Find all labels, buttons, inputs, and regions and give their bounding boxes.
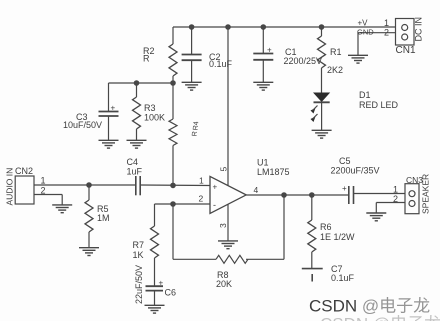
wire +V top rail: [173, 26, 396, 28]
junction C2 rail: [189, 25, 193, 29]
svg-text:C6: C6: [165, 288, 177, 298]
connector CN3: [405, 184, 419, 214]
svg-text:1M: 1M: [97, 213, 110, 223]
labels R8: [216, 270, 232, 289]
connector CN1: [396, 19, 415, 46]
labels R2: [143, 46, 155, 64]
svg-text:C4: C4: [127, 157, 139, 167]
svg-text:+V: +V: [358, 19, 369, 28]
svg-text:R6: R6: [320, 222, 332, 232]
svg-text:1: 1: [199, 176, 204, 186]
svg-text:RED LED: RED LED: [359, 100, 399, 110]
capacitor C5: [349, 186, 405, 204]
svg-text:R: R: [143, 54, 150, 64]
capacitor C6: [146, 286, 164, 305]
svg-text:1: 1: [393, 185, 398, 195]
op-amp U1: [210, 176, 246, 213]
capacitor C2: [182, 27, 202, 82]
ground D1: [312, 130, 332, 138]
svg-text:2200/25V: 2200/25V: [284, 56, 323, 66]
labels R6: [320, 222, 355, 242]
svg-text:C5: C5: [339, 156, 351, 166]
labels C5: [331, 156, 380, 193]
connector CN2: [15, 176, 34, 204]
wire feedback loop: [173, 204, 216, 259]
ground CN1: [348, 55, 368, 63]
svg-text:DC IN: DC IN: [414, 17, 424, 42]
capacitor C4: [136, 176, 210, 195]
svg-text:+: +: [267, 46, 272, 55]
wire pin3: [227, 204, 229, 241]
svg-text:CN1: CN1: [396, 45, 416, 56]
svg-text:+: +: [342, 184, 347, 193]
ground U1 pin3: [218, 241, 238, 249]
ground R3: [127, 140, 147, 148]
resistor R4: [169, 83, 177, 185]
svg-text:-: -: [213, 200, 216, 210]
labels CN1: [357, 17, 424, 56]
junction R1 rail: [319, 25, 323, 29]
junction feedback pin2: [171, 202, 175, 206]
labels CN3: [393, 174, 431, 214]
labels C3: [63, 112, 102, 130]
ground C1: [253, 82, 273, 90]
svg-text:2200uF/35V: 2200uF/35V: [331, 166, 380, 176]
labels C2: [209, 52, 233, 69]
svg-text:2: 2: [393, 194, 398, 204]
junction bias R4: [171, 81, 175, 85]
svg-text:R: R: [192, 131, 199, 137]
svg-text:3: 3: [218, 223, 228, 228]
ground CN3: [366, 213, 386, 221]
ground C3: [99, 140, 119, 148]
svg-text:CN2: CN2: [15, 166, 33, 176]
svg-text:2K2: 2K2: [327, 65, 343, 75]
labels C7: [331, 264, 355, 283]
svg-text:GND: GND: [357, 28, 374, 37]
labels C1: [284, 47, 323, 66]
svg-text:20K: 20K: [216, 279, 232, 289]
wire R8 to output: [246, 195, 284, 259]
capacitor polarity marks: [111, 46, 273, 113]
labels R1: [327, 47, 343, 75]
labels U1: [257, 158, 290, 178]
svg-text:0.1uF: 0.1uF: [209, 59, 233, 69]
labels U1 pins: [199, 167, 259, 229]
wire pin2: [155, 203, 211, 205]
ground CN2: [52, 205, 72, 213]
svg-text:2: 2: [199, 194, 204, 204]
resistor R1: [318, 27, 326, 93]
junction C1 rail: [261, 25, 265, 29]
junction R3 top: [134, 81, 138, 85]
wire bias node: [109, 82, 174, 84]
resistor R6: [308, 195, 316, 269]
resistor R5: [85, 185, 93, 247]
svg-text:R1: R1: [330, 47, 342, 57]
wire CN2 pin2: [34, 195, 62, 205]
LED D1: [311, 93, 331, 131]
svg-text:100K: 100K: [144, 113, 165, 123]
svg-text:+: +: [213, 183, 218, 192]
svg-text:4: 4: [254, 185, 259, 195]
svg-text:D1: D1: [359, 90, 371, 100]
svg-text:2: 2: [41, 186, 46, 196]
wire CN2 pin1 input: [34, 184, 136, 186]
junction feedback output: [282, 193, 286, 197]
svg-text:1uF: 1uF: [127, 167, 143, 177]
labels R5: [97, 204, 110, 223]
svg-text:1: 1: [384, 18, 389, 28]
svg-text:2: 2: [384, 28, 389, 38]
capacitor C7: [302, 269, 323, 282]
wire output: [246, 194, 349, 196]
svg-text:R4: R4: [193, 121, 201, 131]
wire CN3 pin2: [376, 203, 405, 213]
svg-text:R7: R7: [133, 240, 145, 250]
junction pin5 rail: [226, 25, 230, 29]
svg-text:0.1uF: 0.1uF: [331, 273, 355, 283]
ground C6: [145, 305, 165, 313]
capacitor C1: [253, 27, 273, 82]
resistor R7: [151, 204, 159, 286]
labels R3: [144, 103, 165, 123]
svg-text:10uF/50V: 10uF/50V: [63, 120, 102, 130]
labels R4: [192, 121, 201, 137]
junction R6 output: [310, 193, 314, 197]
ground C2: [182, 82, 202, 90]
svg-text:R3: R3: [144, 103, 156, 113]
labels C6: [134, 265, 176, 304]
svg-text:LM1875: LM1875: [257, 167, 290, 177]
capacitor C3: [99, 83, 119, 140]
svg-text:SPEAKER: SPEAKER: [421, 174, 431, 214]
svg-text:CSDN @电子龙: CSDN @电子龙: [309, 297, 430, 316]
ground R5: [79, 248, 99, 256]
labels R7: [133, 240, 145, 260]
wire GND to CN1 pin2: [358, 33, 396, 55]
svg-text:+: +: [159, 279, 164, 288]
svg-text:1: 1: [41, 176, 46, 186]
svg-text:22uF/50V: 22uF/50V: [134, 265, 144, 304]
svg-text:+: +: [111, 104, 116, 113]
labels C4: [127, 157, 143, 177]
junction R5 top: [87, 183, 91, 187]
svg-text:1K: 1K: [133, 250, 144, 260]
resistor R3: [133, 83, 141, 140]
wire pin5 supply: [227, 27, 229, 186]
svg-text:U1: U1: [257, 158, 269, 168]
svg-text:1E 1/2W: 1E 1/2W: [320, 232, 355, 242]
labels D1: [359, 90, 399, 110]
labels CN2: [5, 166, 46, 206]
resistor R2: [169, 27, 177, 83]
junction R4 input: [171, 183, 175, 187]
svg-text:5: 5: [219, 167, 229, 172]
svg-text:CSDN @电子龙: CSDN @电子龙: [320, 315, 440, 321]
svg-text:AUDIO IN: AUDIO IN: [5, 168, 15, 206]
resistor R8: [216, 255, 248, 263]
